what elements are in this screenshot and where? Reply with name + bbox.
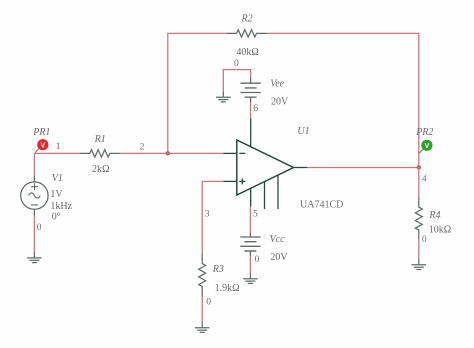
node 2 junction — [166, 152, 169, 155]
svg-text:V: V — [425, 143, 430, 150]
svg-text:20V: 20V — [271, 97, 289, 108]
pin: V+ top (net 6) — [250, 118, 252, 147]
svg-text:R3: R3 — [212, 264, 224, 275]
wire: R4 to ground — [418, 239, 420, 259]
svg-text:1V: 1V — [50, 189, 63, 200]
svg-text:4: 4 — [422, 174, 427, 184]
battery Vee — [240, 77, 260, 103]
svg-text:U1: U1 — [297, 126, 309, 137]
wire: net 6 (Vee to op-amp) — [250, 103, 252, 119]
pin: non-inverting input — [223, 180, 237, 182]
wire: feedback top right segment (R2 to output node 4) — [267, 33, 419, 167]
wire: feedback top left segment (net 2 to R2) — [168, 33, 227, 153]
ground (V1) — [27, 252, 42, 263]
wire: net 5 (op-amp to Vcc) — [249, 207, 251, 233]
wire: R3 to ground — [201, 297, 203, 323]
svg-text:R2: R2 — [241, 14, 253, 25]
svg-text:0: 0 — [422, 235, 427, 245]
wire: net 0 Vee ground loop — [223, 70, 250, 92]
svg-text:1.9kΩ: 1.9kΩ — [215, 283, 240, 294]
svg-text:0°: 0° — [52, 212, 61, 223]
svg-text:20V: 20V — [270, 252, 288, 263]
svg-text:10kΩ: 10kΩ — [429, 225, 451, 236]
svg-text:R4: R4 — [428, 210, 440, 221]
svg-text:Vcc: Vcc — [270, 234, 286, 245]
svg-text:2kΩ: 2kΩ — [92, 164, 109, 175]
svg-text:V1: V1 — [52, 173, 63, 184]
wire: V1 branch — [33, 153, 35, 176]
svg-text:0: 0 — [37, 223, 42, 233]
wire: input net 1/2 (PR1 corner to op-amp) — [34, 152, 79, 154]
svg-text:V: V — [40, 142, 45, 149]
svg-text:6: 6 — [253, 104, 258, 114]
svg-text:3: 3 — [205, 209, 210, 219]
pin: inverting input — [223, 152, 237, 154]
svg-text:UA741CD: UA741CD — [300, 200, 343, 211]
svg-text:0: 0 — [234, 59, 239, 69]
svg-text:1: 1 — [56, 142, 61, 152]
ground (R3) — [195, 322, 210, 332]
wire: output net 4 — [307, 167, 419, 169]
pin: offset null 2 — [277, 175, 279, 209]
battery Vcc — [240, 233, 260, 257]
probe PR2 — [419, 140, 432, 153]
svg-text:PR2: PR2 — [415, 127, 433, 138]
op-amp U1 — [223, 118, 307, 209]
wire: net 3 (plus input to R3) — [202, 181, 223, 253]
wire: Vcc to ground — [249, 256, 251, 273]
svg-text:5: 5 — [253, 209, 258, 219]
svg-text:0: 0 — [255, 255, 260, 265]
svg-text:0: 0 — [206, 298, 211, 308]
svg-text:R1: R1 — [94, 134, 106, 145]
svg-text:1kHz: 1kHz — [50, 201, 72, 212]
resistor R3 — [199, 254, 206, 297]
node 4 junction — [417, 166, 420, 169]
ground (Vcc) — [243, 273, 258, 283]
svg-text:2: 2 — [140, 142, 145, 152]
resistor R1 — [80, 150, 120, 157]
probe PR1 — [35, 139, 48, 152]
ground (Vee) — [216, 92, 231, 102]
resistor R2 — [227, 30, 267, 37]
svg-text:40kΩ: 40kΩ — [236, 47, 258, 58]
svg-text:Vee: Vee — [270, 79, 284, 90]
ground (R4) — [412, 259, 427, 270]
pin: output — [294, 167, 308, 169]
pin: offset null 1 — [264, 182, 266, 209]
source V1 — [21, 176, 48, 216]
resistor R4 — [415, 197, 422, 239]
wire: node 4 to R4 — [418, 167, 420, 197]
svg-text:PR1: PR1 — [32, 127, 50, 138]
pin: V- bottom (net 5) — [250, 188, 252, 206]
